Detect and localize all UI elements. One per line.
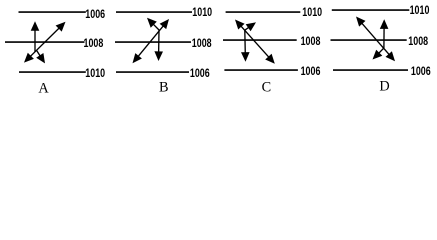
short up-right transition arrow (panel C) bbox=[245, 22, 256, 31]
svg-text:1010: 1010 bbox=[302, 5, 322, 19]
svg-text:1006: 1006 bbox=[190, 66, 210, 80]
svg-text:B: B bbox=[159, 80, 169, 96]
energy level line 1006 (panel B bottom) bbox=[116, 71, 189, 73]
energy level line 1008 (panel A middle) bbox=[5, 41, 85, 43]
svg-text:1006: 1006 bbox=[301, 64, 321, 78]
vertical upward transition arrow (panel D) bbox=[380, 19, 389, 48]
svg-text:1008: 1008 bbox=[408, 34, 428, 48]
double-headed diagonal transition arrow (panel A) bbox=[24, 22, 66, 63]
svg-text:1008: 1008 bbox=[301, 34, 321, 48]
svg-text:1010: 1010 bbox=[85, 66, 105, 80]
energy level line 1006 (panel D bottom) bbox=[333, 69, 408, 71]
energy level line 1010 (panel B top) bbox=[116, 11, 192, 13]
short down-left transition arrow (panel D) bbox=[373, 48, 384, 60]
energy level line 1008 (panel B middle) bbox=[115, 41, 191, 43]
double-headed diagonal transition arrow (panel B) bbox=[133, 19, 170, 63]
energy level line 1006 (panel A top) bbox=[19, 11, 86, 13]
energy level line 1006 (panel C bottom) bbox=[224, 69, 298, 71]
short up-left transition arrow (panel B) bbox=[147, 18, 160, 31]
svg-text:1006: 1006 bbox=[85, 7, 105, 21]
energy level line 1008 (panel C middle) bbox=[223, 39, 297, 41]
svg-text:1010: 1010 bbox=[410, 3, 430, 17]
energy level line 1008 (panel D middle) bbox=[331, 39, 407, 41]
energy level line 1010 (panel A bottom) bbox=[19, 71, 86, 73]
svg-text:D: D bbox=[379, 79, 389, 95]
svg-text:A: A bbox=[38, 81, 49, 97]
svg-text:C: C bbox=[262, 80, 272, 96]
svg-text:1008: 1008 bbox=[192, 36, 212, 50]
energy level line 1010 (panel C top) bbox=[226, 11, 301, 13]
svg-text:1010: 1010 bbox=[192, 5, 212, 19]
svg-text:1008: 1008 bbox=[84, 36, 104, 50]
vertical downward transition arrow (panel B) bbox=[154, 30, 163, 61]
energy level line 1010 (panel D top) bbox=[332, 9, 410, 11]
vertical upward transition arrow (panel A) bbox=[31, 21, 40, 52]
short down-right transition arrow (panel A) bbox=[36, 50, 45, 63]
double-headed diagonal transition arrow (panel D) bbox=[356, 17, 395, 62]
double-headed diagonal transition arrow (panel C) bbox=[235, 20, 275, 64]
svg-text:1006: 1006 bbox=[411, 64, 431, 78]
vertical downward transition arrow (panel C) bbox=[241, 30, 250, 62]
